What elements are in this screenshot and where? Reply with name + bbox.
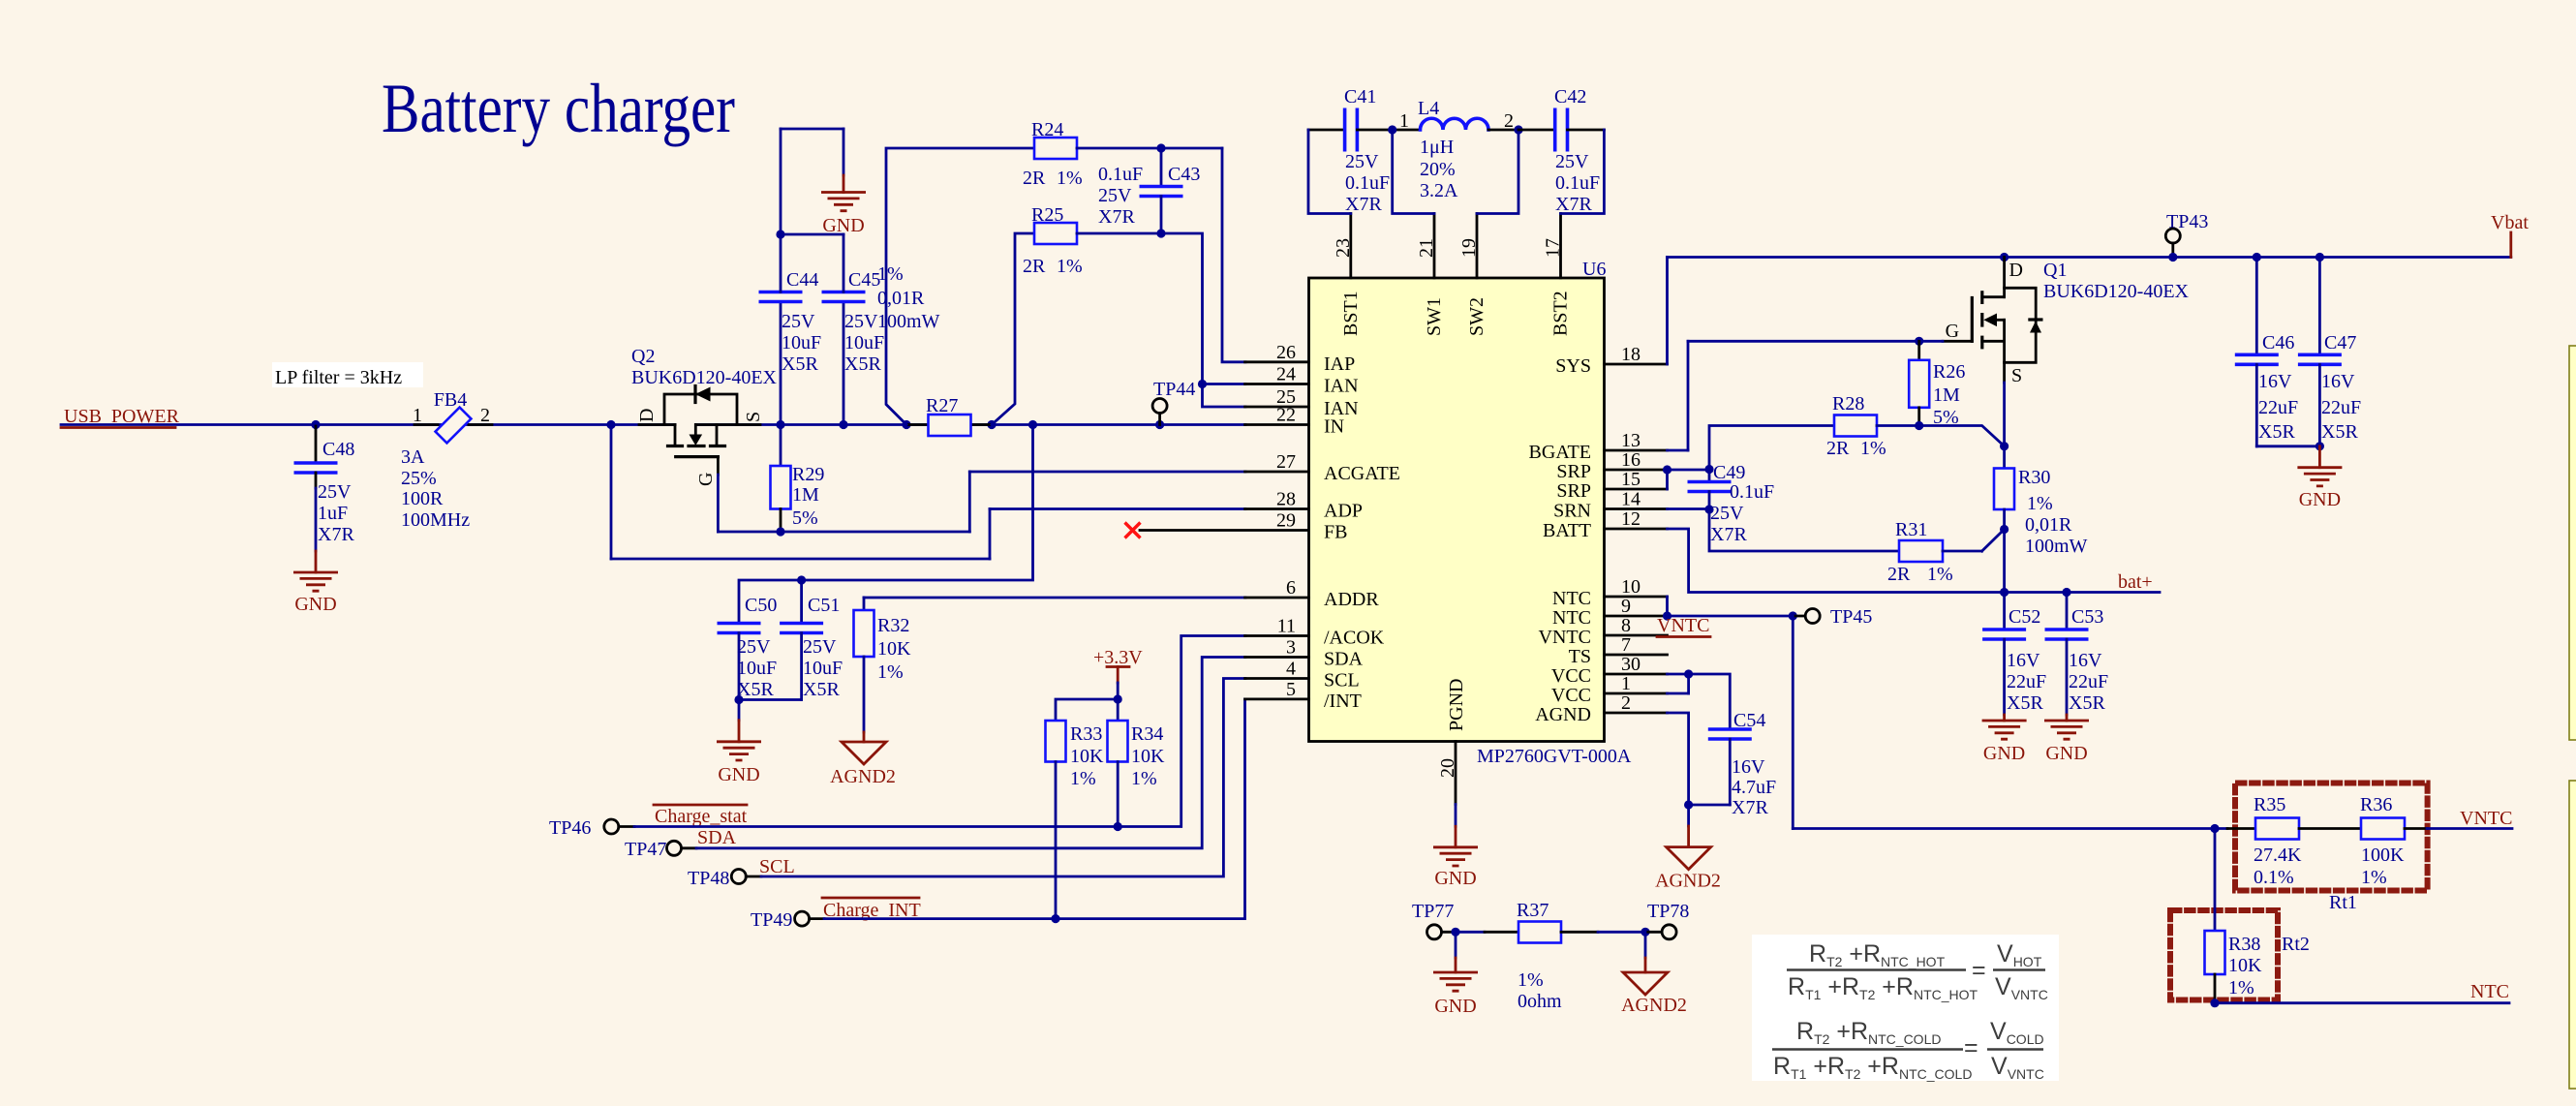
svg-text:BATT: BATT xyxy=(1543,520,1591,541)
svg-text:X7R: X7R xyxy=(318,524,354,545)
svg-text:0,01R: 0,01R xyxy=(877,288,925,309)
svg-text:1%: 1% xyxy=(2361,867,2387,888)
svg-text:100mW: 100mW xyxy=(2025,536,2088,557)
resistor R33 xyxy=(1046,699,1119,919)
svg-text:R37: R37 xyxy=(1517,900,1549,921)
svg-text:25V: 25V xyxy=(782,311,815,332)
svg-text:24: 24 xyxy=(1276,364,1296,385)
svg-text:FB4: FB4 xyxy=(434,389,467,411)
svg-text:NTC: NTC xyxy=(2470,981,2509,1002)
svg-text:2R: 2R xyxy=(1023,256,1046,277)
svg-text:R24: R24 xyxy=(1031,119,1063,140)
node: junction C47 xyxy=(2315,253,2324,261)
svg-text:1%: 1% xyxy=(1131,768,1157,789)
svg-text:L4: L4 xyxy=(1418,98,1439,119)
capacitor C54 xyxy=(1689,674,1777,818)
node: junction C53 xyxy=(2062,588,2070,597)
svg-text:1%: 1% xyxy=(1518,969,1544,991)
svg-text:22uF: 22uF xyxy=(2069,671,2108,692)
svg-text:1%: 1% xyxy=(2027,493,2053,514)
sheet connector sliver (bottom right edge) xyxy=(2569,781,2576,1089)
resistor R35 xyxy=(2227,794,2361,888)
svg-text:21: 21 xyxy=(1416,238,1437,258)
svg-text:ADP: ADP xyxy=(1324,501,1363,522)
svg-text:LP filter = 3kHz: LP filter = 3kHz xyxy=(275,367,402,388)
svg-text:100MHz: 100MHz xyxy=(401,509,470,531)
wire: AGND pin 2 down xyxy=(1668,713,1689,826)
svg-text:VNTC: VNTC xyxy=(2460,808,2512,829)
svg-text:VNTC: VNTC xyxy=(1657,615,1709,636)
svg-text:/ACOK: /ACOK xyxy=(1324,628,1385,649)
svg-text:3.2A: 3.2A xyxy=(1420,180,1458,201)
pin 2 AGND xyxy=(1535,692,1667,725)
svg-text:10uF: 10uF xyxy=(782,332,821,353)
svg-text:X5R: X5R xyxy=(2069,692,2105,714)
node: junction R34 bottom xyxy=(1114,822,1122,831)
svg-text:25V: 25V xyxy=(1555,151,1589,172)
ground AGND2 (TP78) xyxy=(1621,932,1687,1016)
net Charge_stat label xyxy=(654,805,748,827)
highlight box Rt2 xyxy=(2170,910,2278,1000)
svg-text:Battery charger: Battery charger xyxy=(382,70,735,147)
svg-text:GND: GND xyxy=(2045,743,2087,764)
wire: Q1 source down xyxy=(2003,383,2006,469)
svg-text:X7R: X7R xyxy=(1555,194,1592,215)
svg-text:Rt2: Rt2 xyxy=(2282,934,2310,955)
capacitor C48 xyxy=(294,426,355,551)
node: junction TP44 xyxy=(1155,420,1164,429)
svg-text:16V: 16V xyxy=(1732,756,1765,778)
svg-text:NTC: NTC xyxy=(1552,588,1591,609)
svg-text:27.4K: 27.4K xyxy=(2254,845,2302,866)
svg-text:U6: U6 xyxy=(1582,259,1606,280)
svg-text:1%: 1% xyxy=(1070,768,1096,789)
svg-text:R31: R31 xyxy=(1895,519,1927,540)
svg-text:VCC: VCC xyxy=(1551,665,1591,687)
svg-text:11: 11 xyxy=(1277,616,1296,637)
capacitor C52 xyxy=(1982,593,2046,716)
svg-text:SRP: SRP xyxy=(1556,461,1591,482)
pin 16 SRP xyxy=(1556,449,1667,482)
ferrite bead FB4 xyxy=(401,389,492,531)
svg-text:C48: C48 xyxy=(322,439,354,460)
svg-text:26: 26 xyxy=(1276,342,1296,363)
pin 6 ADDR xyxy=(1245,577,1380,610)
ground GND (C46/C47) xyxy=(2297,446,2342,510)
svg-text:16: 16 xyxy=(1621,449,1641,471)
svg-text:9: 9 xyxy=(1621,596,1631,617)
ground GND (TP77) xyxy=(1433,932,1478,1017)
svg-text:C51: C51 xyxy=(808,595,840,616)
ground AGND2 (R32) xyxy=(830,732,896,787)
svg-text:1%: 1% xyxy=(1860,438,1886,459)
svg-text:30: 30 xyxy=(1621,654,1641,675)
testpoint TP46 xyxy=(549,817,634,839)
svg-text:10uF: 10uF xyxy=(803,658,843,679)
node: junction C44 top xyxy=(776,230,784,238)
wire: C42 right to pin 17 xyxy=(1561,130,1605,214)
svg-text:1uF: 1uF xyxy=(318,503,348,524)
svg-text:=: = xyxy=(1964,1034,1978,1061)
svg-text:=: = xyxy=(1972,957,1986,984)
svg-text:0.1%: 0.1% xyxy=(2254,867,2294,888)
svg-text:13: 13 xyxy=(1621,430,1641,451)
svg-text:0.1uF: 0.1uF xyxy=(1345,172,1390,194)
svg-text:X5R: X5R xyxy=(2258,421,2295,443)
testpoint TP45 xyxy=(1793,606,1872,628)
svg-text:10K: 10K xyxy=(877,638,911,660)
svg-text:4.7uF: 4.7uF xyxy=(1732,777,1776,798)
svg-text:GND: GND xyxy=(2299,489,2341,510)
node: junction R33 bottom xyxy=(1051,914,1059,923)
svg-text:1: 1 xyxy=(1621,673,1631,694)
capacitor C47 xyxy=(2298,258,2361,446)
svg-text:SW2: SW2 xyxy=(1466,297,1487,336)
node: junction C44/R29 xyxy=(776,420,784,429)
node: junction C45 xyxy=(839,420,847,429)
ground GND (C53) xyxy=(2044,715,2089,764)
svg-text:C53: C53 xyxy=(2071,606,2103,628)
capacitor C53 xyxy=(2045,593,2109,716)
resistor R37 xyxy=(1456,900,1645,1012)
resistor R36 xyxy=(2360,794,2427,888)
testpoint TP49 xyxy=(751,909,824,931)
svg-text:14: 14 xyxy=(1621,489,1641,510)
wire: SRP pins tie xyxy=(1668,470,1710,489)
wire: SDA to pin 3 xyxy=(696,658,1245,848)
svg-text:TP47: TP47 xyxy=(625,839,666,860)
svg-text:1%: 1% xyxy=(2228,977,2254,998)
svg-text:AGND2: AGND2 xyxy=(1621,995,1687,1016)
node: junction L4 pin2 xyxy=(1514,125,1522,134)
svg-text:25%: 25% xyxy=(401,468,437,489)
wire: L4 pin2 to SW2 xyxy=(1477,130,1518,214)
node: junction R30/R31 xyxy=(2000,525,2009,534)
svg-text:0.1uF: 0.1uF xyxy=(1098,164,1143,185)
svg-text:GND: GND xyxy=(1983,743,2025,764)
node: junction C46 xyxy=(2253,253,2261,261)
capacitor C46 xyxy=(2235,258,2298,446)
svg-text:GND: GND xyxy=(718,764,759,785)
net VNTC label (pin 8) xyxy=(1657,615,1710,637)
transistor Q2 BUK6D120-40EX xyxy=(631,346,778,486)
svg-text:D: D xyxy=(636,409,658,422)
wire: L4 pin1 to SW1 xyxy=(1393,130,1434,214)
wire: Charge_stat to pin 11 xyxy=(634,636,1245,827)
svg-text:C54: C54 xyxy=(1733,710,1765,731)
pin 21 SW1 xyxy=(1416,214,1445,337)
wire: main input bus (USB_POWER / IN) xyxy=(61,423,1245,426)
pin 9 NTC xyxy=(1552,596,1668,629)
svg-text:IN: IN xyxy=(1324,416,1344,438)
svg-text:16V: 16V xyxy=(2007,650,2040,671)
svg-text:2R: 2R xyxy=(1023,168,1046,189)
formula 2: cold xyxy=(1772,1018,2044,1082)
ground GND (pin 20) xyxy=(1433,805,1478,890)
svg-text:C50: C50 xyxy=(745,595,777,616)
svg-text:16V: 16V xyxy=(2258,371,2292,392)
svg-text:10K: 10K xyxy=(1131,746,1165,767)
capacitor C44 xyxy=(759,129,822,425)
resistor R24 xyxy=(886,119,1222,425)
svg-text:R29: R29 xyxy=(792,464,824,485)
node: junction L4 pin1 xyxy=(1388,125,1396,134)
node: junction TP77/GND xyxy=(1451,928,1459,937)
svg-text:R38: R38 xyxy=(2228,934,2260,955)
node: junction R38 top / R35 xyxy=(2210,824,2219,833)
svg-text:17: 17 xyxy=(1543,238,1564,258)
svg-text:G: G xyxy=(695,473,717,486)
net USB_POWER label xyxy=(61,406,180,428)
wire: SYS net to Vbat bus xyxy=(1668,258,2511,365)
svg-text:0.1uF: 0.1uF xyxy=(1555,172,1600,194)
svg-text:TP46: TP46 xyxy=(549,817,591,839)
wire: VCC pins tie xyxy=(1668,674,1689,693)
svg-text:29: 29 xyxy=(1276,510,1296,532)
svg-text:SDA: SDA xyxy=(1324,649,1364,670)
resistor R32 (ADDR) xyxy=(854,598,1246,732)
node: junction C50/C51 branch xyxy=(1028,420,1037,429)
node: junction +3.3V rail xyxy=(1114,694,1122,703)
svg-text:SDA: SDA xyxy=(697,827,737,848)
svg-text:3A: 3A xyxy=(401,446,425,468)
node: junction after FB4 xyxy=(606,420,615,429)
svg-text:C43: C43 xyxy=(1168,164,1200,185)
node: junction R25 branch xyxy=(987,420,996,429)
svg-text:18: 18 xyxy=(1621,344,1641,365)
ground GND (C48) xyxy=(293,551,338,615)
svg-text:TP49: TP49 xyxy=(751,909,792,931)
svg-text:SCL: SCL xyxy=(759,856,795,877)
svg-text:3: 3 xyxy=(1286,637,1296,659)
wire: BATT pin 12 to bat+ bus xyxy=(1668,529,2161,593)
svg-text:2R: 2R xyxy=(1826,438,1850,459)
formula 1: hot xyxy=(1787,940,2048,1002)
ground GND (C52) xyxy=(1982,715,2027,764)
svg-text:1%: 1% xyxy=(877,263,904,285)
capacitor C50 xyxy=(718,595,778,700)
pin 12 BATT xyxy=(1543,508,1668,541)
node: junction R29/gate xyxy=(776,527,784,536)
pin 5 /INT xyxy=(1245,679,1362,712)
pin 11 /ACOK xyxy=(1245,616,1385,649)
svg-text:25V: 25V xyxy=(737,636,771,658)
svg-text:GND: GND xyxy=(294,594,336,615)
capacitor C43 xyxy=(1098,148,1200,233)
svg-text:G: G xyxy=(1946,321,1959,342)
svg-text:AGND2: AGND2 xyxy=(1655,871,1721,892)
svg-text:20%: 20% xyxy=(1420,159,1456,180)
svg-text:1%: 1% xyxy=(1057,256,1083,277)
svg-text:10uF: 10uF xyxy=(844,332,884,353)
pin 30 VCC xyxy=(1551,654,1668,687)
wire: C41 left to pin 23 xyxy=(1308,130,1351,214)
testpoint TP47 xyxy=(625,839,696,860)
inductor L4 xyxy=(1393,98,1518,201)
resistor R31 xyxy=(1709,509,1982,585)
wire: NTC pins 10/9 tie xyxy=(1668,597,1794,616)
svg-text:GND: GND xyxy=(822,215,864,236)
svg-text:C52: C52 xyxy=(2009,606,2040,628)
power port +3.3V xyxy=(1093,647,1143,699)
pin 18 SYS xyxy=(1555,344,1667,377)
svg-text:15: 15 xyxy=(1621,469,1641,490)
svg-text:1%: 1% xyxy=(1057,168,1083,189)
ground AGND2 (C54/pin2) xyxy=(1655,826,1721,892)
svg-text:TS: TS xyxy=(1569,646,1591,667)
testpoint TP43 xyxy=(2165,211,2208,258)
svg-text:16V: 16V xyxy=(2321,371,2355,392)
pin 27 ACGATE xyxy=(1245,451,1400,484)
node: junction R38 bottom / NTC xyxy=(2210,998,2219,1007)
svg-text:R35: R35 xyxy=(2254,794,2285,815)
svg-text:R33: R33 xyxy=(1070,723,1102,745)
svg-text:PGND: PGND xyxy=(1446,679,1467,731)
svg-text:X5R: X5R xyxy=(844,353,881,375)
wire: C50/C51 bottoms xyxy=(739,698,802,701)
svg-text:4: 4 xyxy=(1286,659,1296,680)
svg-text:1μH: 1μH xyxy=(1420,137,1454,158)
node: junction C49 top xyxy=(1704,465,1713,474)
wire+net NTC label xyxy=(2215,981,2509,1003)
pin 24 IAN xyxy=(1245,364,1359,397)
svg-text:8: 8 xyxy=(1621,615,1631,636)
svg-text:C47: C47 xyxy=(2324,332,2356,353)
svg-text:1: 1 xyxy=(413,405,422,426)
svg-text:R34: R34 xyxy=(1131,723,1163,745)
wire: R31 to R30 bottom xyxy=(1982,530,2005,552)
svg-text:1%: 1% xyxy=(1927,564,1953,585)
svg-text:ADDR: ADDR xyxy=(1324,589,1379,610)
resistor R29 xyxy=(771,425,825,533)
node: junction TP78/AGND2 xyxy=(1641,928,1649,937)
svg-text:22uF: 22uF xyxy=(2258,397,2298,418)
pin 28 ADP xyxy=(1245,489,1363,522)
svg-text:6: 6 xyxy=(1286,577,1296,599)
svg-text:BST1: BST1 xyxy=(1340,291,1362,336)
pin 22 IN xyxy=(1245,405,1345,438)
svg-text:VCC: VCC xyxy=(1551,685,1591,706)
pin 3 SDA xyxy=(1245,637,1364,670)
svg-text:SRP: SRP xyxy=(1556,480,1591,502)
svg-text:BUK6D120-40EX: BUK6D120-40EX xyxy=(631,367,778,388)
node: junction TP43 xyxy=(2168,253,2177,261)
wire: SCL to pin 4 xyxy=(761,679,1245,877)
svg-text:19: 19 xyxy=(1458,238,1480,258)
pin 1 VCC xyxy=(1551,673,1668,706)
svg-text:25V: 25V xyxy=(1710,503,1744,524)
node: junction Q1 drain xyxy=(2000,253,2009,261)
svg-text:C45: C45 xyxy=(848,269,880,291)
svg-text:AGND2: AGND2 xyxy=(830,766,896,787)
svg-text:10: 10 xyxy=(1621,576,1641,598)
svg-text:1%: 1% xyxy=(877,661,904,683)
svg-text:BGATE: BGATE xyxy=(1529,442,1591,463)
svg-text:X7R: X7R xyxy=(1710,524,1747,545)
svg-text:0,01R: 0,01R xyxy=(2025,514,2072,536)
svg-text:25V: 25V xyxy=(318,481,352,503)
svg-text:BUK6D120-40EX: BUK6D120-40EX xyxy=(2043,281,2190,302)
no-connect X on pin 29 (FB) xyxy=(1125,523,1309,538)
node: junction VCC xyxy=(1684,669,1693,678)
svg-text:TP77: TP77 xyxy=(1412,901,1454,922)
svg-text:12: 12 xyxy=(1621,508,1641,530)
capacitor C45 xyxy=(822,234,885,425)
svg-text:Q1: Q1 xyxy=(2043,260,2067,281)
highlight box Rt1 xyxy=(2235,783,2428,891)
testpoint TP77 xyxy=(1412,901,1456,939)
svg-text:10uF: 10uF xyxy=(737,658,777,679)
pin 19 SW2 xyxy=(1458,214,1487,337)
node: junction C43 bottom / R25 xyxy=(1156,229,1165,237)
testpoint TP44 xyxy=(1152,379,1195,425)
svg-text:IAN: IAN xyxy=(1324,376,1359,397)
svg-text:C46: C46 xyxy=(2262,332,2294,353)
svg-text:R32: R32 xyxy=(877,615,909,636)
testpoint TP48 xyxy=(688,868,761,889)
svg-text:2R: 2R xyxy=(1887,564,1911,585)
svg-text:23: 23 xyxy=(1333,238,1354,258)
pin 29 FB xyxy=(1276,510,1347,543)
svg-text:SW1: SW1 xyxy=(1424,297,1445,336)
svg-text:X7R: X7R xyxy=(1732,797,1768,818)
svg-text:16V: 16V xyxy=(2069,650,2102,671)
svg-text:Vbat: Vbat xyxy=(2491,212,2529,233)
resistor R28 xyxy=(1709,393,1919,470)
node: junction R26 top xyxy=(1915,337,1923,346)
pin 23 BST1 xyxy=(1333,214,1362,337)
wire: Charge_INT to pin 5 xyxy=(824,699,1245,919)
capacitor C51 xyxy=(780,580,843,700)
svg-text:10K: 10K xyxy=(2228,955,2262,976)
svg-text:S: S xyxy=(2011,365,2022,386)
transistor Q1 BUK6D120-40EX xyxy=(1943,258,2190,387)
node: junction C48 xyxy=(311,420,320,429)
pin 25 IAN xyxy=(1245,386,1359,419)
resistor R26 xyxy=(1909,341,1965,428)
ground GND (C50/C51) xyxy=(717,700,761,786)
svg-text:100R: 100R xyxy=(401,488,444,509)
testpoint TP78 xyxy=(1645,901,1689,939)
ground GND (top, C44/C45) xyxy=(821,175,866,236)
svg-text:25V: 25V xyxy=(844,311,878,332)
net Charge_INT label xyxy=(822,898,921,921)
svg-text:SCL: SCL xyxy=(1324,670,1360,691)
pin 8 VNTC xyxy=(1539,615,1668,648)
svg-text:/INT: /INT xyxy=(1324,691,1362,712)
svg-text:GND: GND xyxy=(1434,868,1476,889)
pin 7 TS xyxy=(1569,634,1668,667)
svg-text:5: 5 xyxy=(1286,679,1296,700)
resistor R34 xyxy=(1108,699,1166,827)
sheet connector sliver (top right edge) xyxy=(2569,346,2576,740)
svg-text:SRN: SRN xyxy=(1553,501,1591,522)
wire: R24 to pin 26 (IAP) xyxy=(1222,148,1245,362)
svg-text:22uF: 22uF xyxy=(2007,671,2046,692)
svg-text:28: 28 xyxy=(1276,489,1296,510)
svg-text:IAP: IAP xyxy=(1324,353,1355,375)
node: junction Q1 source / R30 xyxy=(2000,442,2009,450)
node: junction C50 bottom xyxy=(734,695,743,704)
svg-text:R28: R28 xyxy=(1832,393,1864,415)
svg-text:25V: 25V xyxy=(1098,185,1132,206)
resistor R38 xyxy=(2205,829,2263,1003)
capacitor C49 xyxy=(1688,462,1775,545)
svg-text:S: S xyxy=(743,412,764,422)
svg-text:1M: 1M xyxy=(1933,384,1960,406)
svg-text:Charge_stat: Charge_stat xyxy=(655,806,748,827)
svg-text:NTC: NTC xyxy=(1552,607,1591,629)
